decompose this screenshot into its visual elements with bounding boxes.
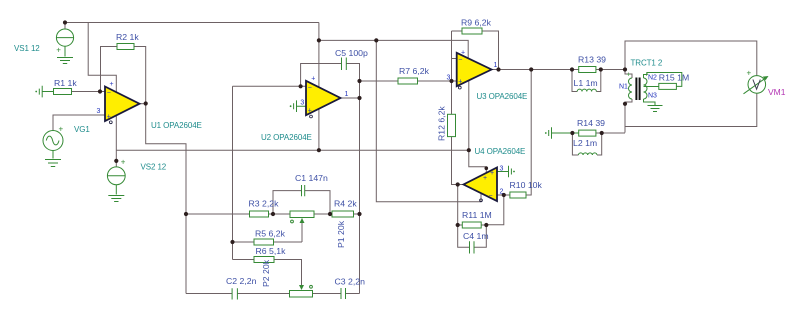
svg-text:R14 39: R14 39 [577,118,605,128]
svg-text:C2 2,2n: C2 2,2n [226,276,257,286]
svg-text:3: 3 [97,108,101,115]
svg-text:U4 OPA2604E: U4 OPA2604E [475,147,526,156]
svg-text:P2 20k: P2 20k [261,259,271,287]
svg-text:R10 10k: R10 10k [510,180,543,190]
svg-text:C1 147n: C1 147n [295,173,328,183]
svg-text:+: + [308,108,312,115]
svg-text:C5 100p: C5 100p [335,48,368,58]
svg-text:N2: N2 [648,75,657,82]
svg-text:3: 3 [500,166,504,173]
svg-text:R6 5,1k: R6 5,1k [256,246,287,256]
svg-text:R15 1M: R15 1M [659,73,689,83]
svg-text:+: + [627,72,631,79]
svg-text:TRCT1 2: TRCT1 2 [631,59,663,68]
svg-text:1: 1 [345,91,349,98]
svg-text:N3: N3 [648,93,657,100]
svg-text:R11 1M: R11 1M [462,210,492,220]
svg-text:3: 3 [447,75,451,82]
svg-text:VS1 12: VS1 12 [14,44,40,53]
svg-text:VG1: VG1 [74,125,90,134]
svg-text:R1 1k: R1 1k [54,78,77,88]
svg-text:+: + [461,50,465,57]
svg-text:−: − [458,57,462,64]
svg-text:+: + [645,72,649,79]
svg-text:R4 2k: R4 2k [334,199,357,209]
svg-text:R2 1k: R2 1k [116,32,139,42]
svg-text:+: + [747,69,752,78]
svg-text:U2 OPA2604E: U2 OPA2604E [261,133,312,142]
svg-text:L1 1m: L1 1m [574,78,598,88]
svg-text:−: − [489,193,493,200]
svg-text:+: + [483,175,487,182]
svg-text:VM1: VM1 [768,87,786,97]
svg-text:R12 6,2k: R12 6,2k [437,106,447,141]
svg-text:U3 OPA2604E: U3 OPA2604E [477,92,528,101]
svg-text:R9 6,2k: R9 6,2k [461,18,492,28]
svg-text:+: + [56,45,61,54]
svg-text:L2 1m: L2 1m [573,138,597,148]
svg-text:C4 1m: C4 1m [463,231,489,241]
svg-text:−: − [107,90,111,97]
svg-text:P1 20k: P1 20k [336,220,346,248]
svg-text:+: + [490,170,494,177]
svg-text:+: + [107,114,111,121]
svg-text:+: + [458,79,462,86]
svg-text:N1: N1 [619,84,628,91]
svg-text:R5 6,2k: R5 6,2k [255,229,286,239]
svg-text:+: + [59,125,64,134]
svg-text:1: 1 [494,62,498,69]
svg-text:+: + [110,81,114,88]
svg-text:−: − [308,85,312,92]
svg-text:R13 39: R13 39 [578,55,606,65]
svg-text:VS2 12: VS2 12 [141,163,167,172]
svg-text:U1 OPA2604E: U1 OPA2604E [151,121,202,130]
svg-text:R7 6,2k: R7 6,2k [399,66,430,76]
svg-text:3: 3 [300,100,304,107]
svg-text:C3 2,2n: C3 2,2n [335,277,366,287]
svg-text:2: 2 [500,189,504,196]
svg-text:+: + [121,158,126,167]
svg-text:+: + [311,75,315,82]
svg-text:R3 2,2k: R3 2,2k [249,199,280,209]
